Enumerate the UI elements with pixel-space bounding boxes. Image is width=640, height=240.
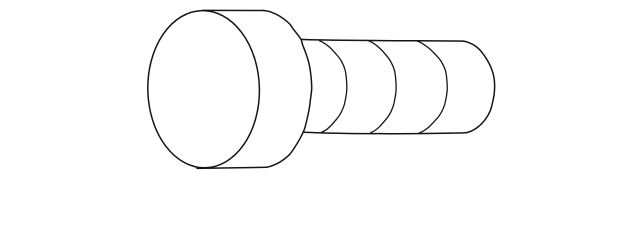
rib arc 1 — [320, 41, 347, 132]
bolt line drawing — [0, 0, 640, 179]
shaft end cap arc — [464, 41, 495, 133]
rib arc 2 — [369, 41, 396, 132]
head front face ellipse — [146, 9, 261, 169]
head top tangent line — [203, 9, 264, 11]
head back rim arc — [264, 11, 312, 168]
shaft bottom line — [303, 132, 466, 134]
head bottom tangent line — [197, 167, 267, 168]
rib arc 3 — [417, 41, 447, 133]
shaft top line — [301, 39, 464, 41]
